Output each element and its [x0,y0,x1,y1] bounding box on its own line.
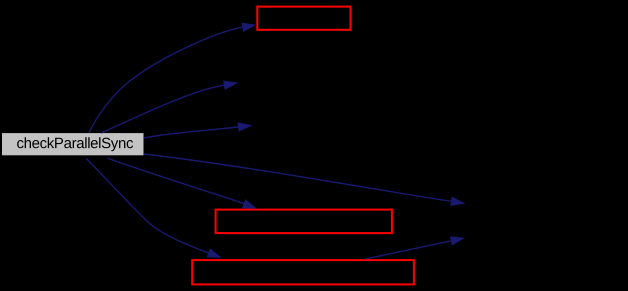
node checkParallelSync (grey filled) [2,133,144,155]
edge checkParallelSync->hidden node (mid) [144,127,238,138]
edge checkParallelSync->hidden node (upper) [101,85,224,133]
edge checkParallelSync->N3 [86,158,208,253]
edge N3->hidden right node [366,241,451,259]
node N1 top callee (red box) [257,7,350,30]
edge checkParallelSync->N1 [89,27,242,133]
node N3 bottom callee (red box) [192,260,414,284]
edge checkParallelSync->hidden right node [144,154,451,201]
svg-text:checkParallelSync: checkParallelSync [16,135,133,152]
edge checkParallelSync->N2 [108,158,244,203]
node N2 middle callee (red box) [216,210,392,234]
